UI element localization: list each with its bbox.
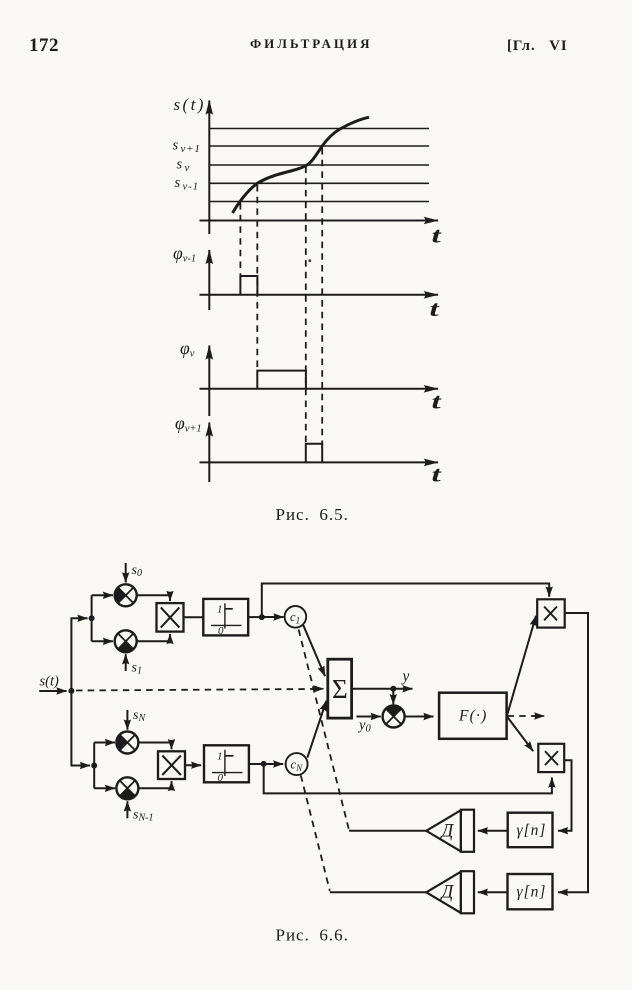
arrow s_N-1 into M4 (126, 801, 128, 818)
squarer X3 (top) (537, 599, 565, 627)
pulse phi_v-1 (240, 276, 257, 295)
node U2 output junction (261, 761, 267, 767)
svg-text:sν: sν (177, 157, 191, 175)
svg-text:γ[п]: γ[п] (517, 884, 547, 901)
wire into detector D1 (349, 830, 426, 832)
gamma block G2 (508, 874, 553, 909)
svg-text:φν: φν (180, 338, 195, 360)
svg-text:ФИЛЬТРАЦИЯ: ФИЛЬТРАЦИЯ (250, 36, 373, 51)
level line 5 (209, 201, 429, 203)
level line s_v (209, 164, 429, 166)
dashed time marker t2 (256, 185, 258, 370)
wire C1-branch feedback to top squarer X3 (262, 584, 549, 618)
node lower bracket junction (91, 763, 97, 769)
arrow y output (393, 688, 412, 690)
svg-text:0: 0 (218, 625, 224, 637)
multiplier M5 (383, 706, 405, 728)
arrow s_0 into M1 (125, 563, 127, 583)
wire F to top squarer X3 (507, 616, 536, 716)
level line s_v+1 (209, 145, 429, 147)
svg-text:Д: Д (440, 883, 455, 903)
input arrow s(t) (39, 690, 66, 692)
svg-text:y0: y0 (357, 718, 371, 735)
svg-text:Рис.6.5.: Рис.6.5. (276, 505, 349, 524)
arrow s_N into M3 (126, 710, 128, 730)
wire U2 output (249, 763, 264, 765)
plot3 vertical axis (208, 346, 210, 417)
wire M5 to block F (405, 716, 434, 718)
svg-text:172: 172 (29, 35, 59, 56)
wire C1 to summer (303, 625, 325, 676)
wire trunk vertical (70, 618, 72, 765)
svg-text:t: t (432, 224, 443, 248)
arrow y down into multiplier M5 (392, 689, 394, 705)
svg-text:t: t (432, 390, 443, 414)
node upper bracket junction (89, 615, 95, 621)
svg-text:s1: s1 (132, 661, 142, 677)
wire M2 to squarer X1 (137, 634, 170, 641)
wire into detector D2 (330, 891, 427, 893)
dashed output arrow from F (508, 715, 536, 717)
multiplier M2 (s_1 branch) (115, 630, 137, 652)
svg-text:s(t): s(t) (174, 95, 206, 114)
coefficient circle C1 (285, 606, 307, 628)
plot1 horizontal t axis (200, 220, 439, 222)
multiplier M1 (s_0 branch) (115, 584, 137, 606)
multiplier M4 (s_N-1 branch) (116, 777, 138, 799)
dashed time marker t1 (239, 203, 241, 275)
squarer X2 (158, 751, 185, 779)
wire X4 to gamma block G1 (558, 760, 572, 831)
wire bracket to multiplier M3 (94, 742, 115, 744)
wire CN-branch feedback to bottom squarer X4 (264, 764, 552, 793)
wire summer output y (352, 688, 394, 690)
detector D2 (426, 871, 474, 913)
svg-text:F(·): F(·) (458, 708, 487, 725)
arrow s_1 into M2 (125, 654, 127, 671)
wire M4 to squarer X2 (138, 781, 171, 788)
wire bracket to multiplier M2 (92, 640, 113, 642)
wire trunk to lower bracket (71, 765, 91, 767)
arrow into coefficient CN (264, 763, 284, 765)
signal curve s(t) (233, 117, 370, 213)
node y junction (390, 686, 396, 692)
svg-text:φν-1: φν-1 (173, 243, 196, 265)
gamma block G1 (508, 813, 553, 848)
wire U1 output (248, 616, 262, 618)
wire CN to summer (307, 701, 326, 758)
plot3 horizontal t axis (200, 388, 439, 390)
wire F to bottom squarer X4 (507, 717, 533, 752)
wire X2 to relay U2 (185, 764, 201, 766)
wire X3 to gamma block G2 (558, 613, 588, 892)
svg-text:φν+1: φν+1 (175, 413, 202, 435)
plot4 horizontal t axis (200, 461, 439, 463)
squarer X1 (157, 603, 184, 632)
wire lower bracket (93, 743, 95, 789)
wire X1 to relay U1 (184, 616, 204, 618)
svg-text:0: 0 (218, 772, 224, 784)
relay block U1 (203, 599, 248, 637)
arrow y_0 into M5 (357, 716, 381, 718)
relay block U2 (204, 745, 249, 784)
dashed time marker t4 (321, 148, 323, 443)
block F(.) (439, 693, 507, 739)
plot1 vertical axis (208, 101, 210, 235)
arrow s(t) dashed into summer (311, 688, 324, 690)
plot2 vertical axis (208, 250, 210, 310)
dashed wire CN to detector D2 (301, 775, 330, 891)
squarer X4 (bottom) (538, 744, 564, 772)
pulse phi_v+1 (306, 444, 322, 463)
svg-text:γ[п]: γ[п] (517, 822, 547, 839)
plot4 vertical axis (208, 423, 210, 483)
pulse phi_v (257, 371, 306, 389)
node U1 output junction (259, 614, 265, 620)
level line s_v-1 (209, 182, 429, 184)
dashed wire s(t) to summer (76, 689, 313, 691)
coefficient circle CN (286, 753, 308, 775)
wire M1 to squarer X1 (137, 595, 170, 601)
svg-text:t: t (432, 463, 443, 487)
level line 1 (209, 128, 429, 130)
svg-text:t: t (430, 297, 441, 321)
svg-text:[Гл.VI: [Гл.VI (507, 38, 568, 54)
svg-text:sν-1: sν-1 (175, 175, 199, 193)
multiplier M3 (s_N branch) (116, 732, 138, 754)
svg-text:sν+1: sν+1 (173, 138, 201, 156)
svg-text:s(t): s(t) (40, 674, 60, 690)
wire upper bracket (91, 595, 93, 641)
summer U3 (328, 659, 352, 718)
scan speck (308, 259, 311, 262)
wire trunk to upper bracket (71, 617, 88, 619)
svg-text:Σ: Σ (332, 674, 348, 704)
svg-text:s0: s0 (132, 563, 142, 579)
svg-text:1: 1 (217, 604, 223, 616)
svg-text:Рис.6.6.: Рис.6.6. (276, 926, 349, 945)
dashed time marker t3 (305, 167, 307, 444)
svg-text:sN: sN (133, 708, 146, 724)
arrow G2 to D2 (478, 891, 508, 893)
detector D1 (426, 810, 474, 852)
arrow into coefficient C1 (262, 616, 284, 618)
wire bracket to multiplier M4 (94, 787, 115, 789)
svg-text:1: 1 (217, 751, 223, 763)
plot2 horizontal t axis (200, 294, 439, 296)
svg-text:y: y (401, 668, 410, 685)
svg-text:sN-1: sN-1 (133, 808, 153, 824)
svg-text:Д: Д (440, 822, 455, 842)
arrow head of dashed output (533, 715, 544, 717)
wire M3 to squarer X2 (138, 743, 171, 750)
arrow G1 to D1 (478, 830, 508, 832)
dashed wire C1 to detector D1 (299, 630, 350, 831)
wire bracket to multiplier M1 (92, 594, 113, 596)
node input junction (68, 688, 74, 694)
